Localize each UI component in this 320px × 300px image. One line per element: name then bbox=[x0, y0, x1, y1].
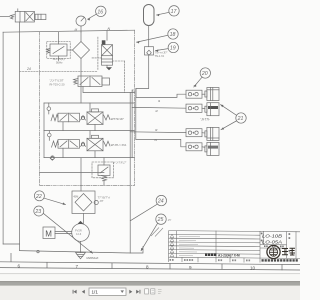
wire: cylinder line L2 bbox=[132, 106, 186, 109]
caption row tiny glyph marks bbox=[170, 259, 251, 261]
directional valve DV1 solenoid zigzag bbox=[51, 115, 58, 121]
rail between valve rows bbox=[44, 130, 135, 132]
cylinder CY1 bbox=[205, 88, 219, 101]
svg-text:9: 9 bbox=[189, 265, 192, 270]
nav last-page button bbox=[136, 290, 140, 294]
node on tank rail bbox=[51, 156, 55, 160]
balloon 17 bbox=[157, 6, 180, 17]
svg-text:8: 8 bbox=[146, 265, 149, 270]
revision triangles bbox=[170, 234, 174, 257]
svg-text:W'J7l->'J'/A: W'J7l->'J'/A bbox=[111, 143, 126, 147]
svg-text:7: 7 bbox=[76, 264, 79, 269]
cylinder CY4 bbox=[205, 142, 219, 155]
directional valve DV2 stem node bbox=[48, 133, 52, 137]
svg-text:M: M bbox=[45, 230, 52, 239]
coupler block CB3 bbox=[186, 129, 202, 137]
balloon 22 bbox=[34, 191, 65, 205]
svg-text:W77ln'Jl7: W77ln'Jl7 bbox=[111, 117, 124, 121]
motor coupling bbox=[55, 231, 72, 233]
hatch at title block left corner bbox=[151, 228, 163, 237]
page edge line bbox=[0, 273, 300, 274]
company name glyph row bbox=[262, 259, 298, 261]
cylinder CY3 bbox=[205, 127, 219, 140]
balloon 16 bbox=[88, 6, 107, 21]
wire: manifold return vertical bbox=[129, 93, 131, 254]
svg-text:l2: l2 bbox=[155, 109, 158, 113]
tank rail under valves bbox=[44, 157, 135, 159]
check valve after DV1 bbox=[81, 116, 84, 119]
counterbalance valve CB-V2 spring bbox=[104, 141, 110, 146]
wire: accumulator line to manifold bbox=[136, 55, 149, 97]
svg-text:M20Mx2l: M20Mx2l bbox=[87, 256, 99, 260]
wire: main pump pressure line bbox=[80, 32, 82, 42]
wire: valve V1 drain rail down left side bbox=[19, 22, 21, 251]
approval header marks bbox=[264, 245, 284, 247]
coupler block CB2 bbox=[186, 104, 202, 112]
brake valve B19 bbox=[145, 47, 154, 56]
power unit boundary frame (dash-dot) bbox=[40, 30, 135, 185]
svg-text:Jl7': Jl7' bbox=[100, 199, 104, 203]
fit icon bbox=[151, 289, 155, 294]
revision note squiggles bbox=[179, 237, 200, 256]
nav prev button bbox=[82, 290, 85, 294]
balloon 19 bbox=[156, 42, 179, 52]
approver signature bold strokes bbox=[282, 248, 295, 255]
wire: manifold vertical x136 bbox=[135, 89, 137, 140]
svg-text:24: 24 bbox=[157, 199, 164, 205]
toolbar separator band bbox=[0, 281, 300, 286]
directional valve DV2 solenoid zigzag bbox=[52, 141, 59, 147]
wire feed line into top-left valve bbox=[0, 15, 10, 17]
balloon 21 bbox=[221, 105, 247, 130]
unloader valve UV feed stub bbox=[106, 31, 108, 41]
model number text bbox=[262, 234, 283, 246]
balloon 20 bbox=[193, 68, 210, 88]
solenoid valve V1 actuator bbox=[35, 14, 46, 19]
wire: left rail bottom jog bbox=[3, 243, 20, 245]
pilot valve PV spring bbox=[74, 79, 79, 85]
counterbalance valve CB-V1 spring bbox=[104, 115, 110, 120]
balloon 24 bbox=[130, 195, 166, 220]
node on return run bbox=[37, 250, 39, 252]
balloon 25 bbox=[141, 214, 172, 251]
directional valve DV1 stem node bbox=[47, 107, 51, 111]
coupler block CB4 bbox=[186, 143, 202, 151]
filter F1 (diamond) bbox=[73, 42, 90, 59]
relief valve RV2 body bbox=[98, 158, 110, 186]
svg-text:'J-'J-7'/l'L7': 'J-'J-7'/l'L7' bbox=[113, 161, 127, 165]
pump P1 bbox=[72, 221, 90, 241]
coupler block CB1 bbox=[186, 90, 202, 98]
svg-text:1/1: 1/1 bbox=[92, 290, 99, 295]
svg-text:24: 24 bbox=[26, 67, 31, 71]
wire couplers to cylinders bbox=[202, 93, 205, 95]
svg-text:23: 23 bbox=[34, 209, 41, 215]
nav first-page button bbox=[73, 290, 77, 294]
balloon 23 bbox=[34, 206, 93, 253]
solenoid valve V1 spring bbox=[10, 15, 14, 19]
relief RV1 pilot dashes bbox=[47, 42, 70, 59]
sheet border bottom line upper bbox=[0, 262, 300, 265]
svg-text:LO-05A: LO-05A bbox=[262, 239, 282, 245]
wire: left return rail bbox=[2, 32, 4, 244]
solenoid valve V1 body bbox=[15, 9, 34, 22]
svg-text:12-6: 12-6 bbox=[76, 232, 82, 236]
directional valve DV1 body bbox=[58, 113, 80, 122]
unloader valve UV solenoid block bbox=[102, 40, 106, 44]
svg-text:'J'J-7''/('Jl7': 'J'J-7''/('Jl7' bbox=[50, 79, 65, 83]
svg-text:50Hz: 50Hz bbox=[56, 61, 63, 65]
revision mark column bbox=[176, 231, 178, 258]
svg-text:N: N bbox=[108, 27, 111, 31]
unloader valve UV body bbox=[102, 45, 113, 65]
balloon 18 bbox=[137, 29, 179, 44]
drain rail y172 bbox=[40, 172, 105, 174]
svg-text:25: 25 bbox=[157, 217, 164, 223]
plotter note dark text bbox=[205, 253, 240, 257]
svg-text:l3: l3 bbox=[155, 128, 158, 132]
wire below filter bbox=[80, 59, 82, 104]
accumulator ACC bbox=[144, 5, 155, 26]
title block outline bbox=[169, 231, 301, 232]
wire: bottom tank return run bbox=[20, 247, 143, 254]
wire: cylinder line L3 bbox=[130, 131, 186, 134]
counterbalance valve CB-V2 body bbox=[87, 138, 103, 151]
unloader valve UV drain mark bbox=[106, 67, 112, 70]
svg-text:22: 22 bbox=[35, 194, 42, 200]
nav next button bbox=[129, 290, 132, 294]
bottom caption cells bbox=[181, 257, 183, 262]
wire: cylinder line L1 bbox=[136, 94, 186, 97]
wire strainer to rails bbox=[80, 158, 82, 191]
svg-text:77''/S/7''n': 77''/S/7''n' bbox=[98, 195, 111, 199]
svg-text:PV2R: PV2R bbox=[75, 229, 82, 233]
svg-text:TN-1.7A: TN-1.7A bbox=[155, 54, 165, 58]
left rail connecting rows bbox=[43, 103, 45, 158]
relief valve RV1 bbox=[47, 32, 73, 60]
tank symbol bbox=[76, 253, 86, 259]
cylinder CY2 bbox=[205, 103, 219, 116]
check diamond on tank rail bbox=[50, 156, 54, 160]
relief valve RV2 dashed box bbox=[92, 162, 114, 178]
type label tiny marks bbox=[261, 233, 290, 252]
suction strainer box bbox=[72, 191, 98, 214]
pilot valve PV solenoid bbox=[102, 78, 110, 85]
svg-text:LO-10B: LO-10B bbox=[262, 234, 283, 240]
wire: top header line N bbox=[3, 30, 134, 32]
electric motor M bbox=[43, 227, 55, 239]
svg-text:18: 18 bbox=[170, 32, 176, 38]
svg-text:21: 21 bbox=[237, 116, 244, 122]
DV1 port stubs bbox=[62, 122, 64, 131]
svg-text:'Jl-77l-: 'Jl-77l- bbox=[201, 118, 210, 122]
DV2 port stubs bbox=[62, 148, 64, 157]
svg-text:M: M bbox=[75, 28, 78, 32]
hanko stamp bbox=[267, 245, 280, 258]
svg-text:l4: l4 bbox=[155, 138, 158, 142]
toolbar background bbox=[0, 286, 300, 300]
revision rows bbox=[169, 233, 261, 236]
sheet border bottom line lower bbox=[0, 268, 300, 270]
svg-text:25': 25' bbox=[167, 218, 172, 222]
counterbalance valve CB-V2 pilot cap bbox=[92, 135, 99, 138]
supply rail to valves row1 bbox=[44, 102, 135, 104]
pressure gauge PG bbox=[76, 16, 86, 32]
wire: accumulator drop line bbox=[148, 26, 150, 47]
svg-text:45M: 45M bbox=[73, 195, 78, 199]
pilot valve PV body bbox=[78, 76, 102, 87]
svg-text:A1-23(A)7 X-M: A1-23(A)7 X-M bbox=[218, 253, 240, 257]
wire: cylinder line L4 bbox=[136, 139, 186, 146]
svg-text:RI-T03-C-20: RI-T03-C-20 bbox=[50, 83, 65, 87]
pilot dash lines around unloader bbox=[20, 37, 125, 93]
svg-text:l1: l1 bbox=[158, 99, 161, 103]
page number input bbox=[89, 288, 126, 295]
right section dividers bbox=[259, 231, 261, 263]
check valve after DV2 bbox=[81, 143, 84, 146]
svg-text:6: 6 bbox=[18, 263, 21, 268]
svg-text:10: 10 bbox=[250, 266, 256, 271]
page layout icon bbox=[145, 289, 149, 294]
zone ticks bbox=[10, 253, 12, 262]
svg-text:16: 16 bbox=[97, 9, 103, 15]
counterbalance valve CB-V1 pilot cap bbox=[92, 109, 99, 112]
counterbalance valve CB-V1 body bbox=[87, 112, 103, 125]
wire pump to tank bbox=[80, 241, 82, 252]
wire: manifold vertical x132 bbox=[131, 90, 133, 158]
wire: pilot valve drain to frame line E bbox=[83, 87, 135, 93]
directional valve DV2 body bbox=[58, 140, 80, 149]
svg-text:19: 19 bbox=[170, 46, 176, 52]
svg-text:20: 20 bbox=[201, 71, 208, 77]
